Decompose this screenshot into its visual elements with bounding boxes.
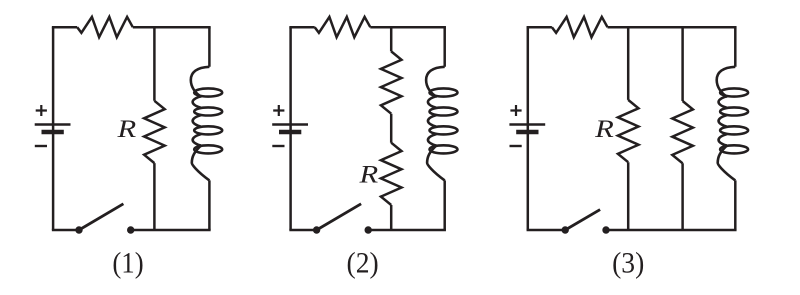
svg-text:(1): (1) <box>112 247 143 280</box>
svg-text:(2): (2) <box>347 247 379 280</box>
svg-text:(3): (3) <box>612 247 644 280</box>
svg-text:R: R <box>358 161 378 188</box>
svg-text:R: R <box>116 116 136 143</box>
svg-text:R: R <box>594 116 614 143</box>
